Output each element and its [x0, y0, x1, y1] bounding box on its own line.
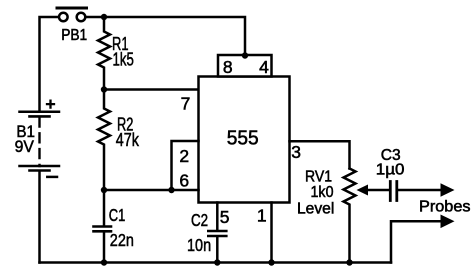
op-amp/IC U1 555 timer body: [199, 77, 290, 203]
capacitor C1 22n: [94, 190, 134, 263]
node: R2 bottom / C1 top junction: [101, 187, 107, 193]
svg-text:Probes: Probes: [419, 199, 471, 216]
pins 8/4 box: [218, 55, 272, 77]
node: RV1 bottom on 0V rail: [346, 259, 352, 265]
svg-text:RV1: RV1: [305, 168, 332, 185]
wire: top rail from PB1 to pins 8/4: [86, 17, 246, 55]
svg-text:PB1: PB1: [61, 27, 87, 44]
pin 1 label: [257, 206, 267, 226]
svg-text:5: 5: [220, 207, 230, 227]
svg-text:7: 7: [181, 94, 191, 114]
svg-text:Level: Level: [297, 200, 334, 217]
wire: bottom 0V rail: [40, 261, 392, 264]
wire: pin 3 to RV1 top: [290, 141, 350, 168]
svg-text:1k0: 1k0: [311, 184, 334, 201]
node: R1 bottom / pin 7 junction: [101, 86, 107, 92]
capacitor C2 10n: [187, 210, 226, 263]
svg-text:6: 6: [179, 171, 189, 191]
resistor R2 47k: [98, 90, 140, 191]
svg-text:1k5: 1k5: [113, 49, 134, 70]
node: junction V+ / R1 top: [101, 14, 107, 20]
svg-text:9V: 9V: [15, 137, 35, 156]
pin 3 label: [291, 142, 301, 162]
pin 5 label: [220, 207, 230, 227]
svg-text:1: 1: [257, 206, 267, 226]
node: C2 bottom on 0V rail: [214, 259, 220, 265]
wire: left rail bottom (battery - to 0V rail): [38, 172, 41, 263]
pin 7 label: [181, 94, 191, 114]
probes label: [419, 199, 471, 216]
node: pin 1 on 0V rail: [268, 259, 274, 265]
wire: pin 1 to 0V rail: [270, 203, 273, 263]
svg-text:555: 555: [227, 128, 259, 150]
node: junction on 8/4 box top: [242, 52, 248, 58]
node: C1 bottom on 0V rail: [101, 259, 107, 265]
wire: pin 5 lead: [216, 203, 219, 231]
node: wire to 2/6 box corner: [168, 187, 174, 193]
pushbutton PB1: [57, 8, 87, 44]
wire: junction to pins 2/6: [104, 189, 172, 192]
svg-text:4: 4: [259, 57, 269, 77]
svg-text:1µ0: 1µ0: [376, 162, 405, 179]
svg-text:47k: 47k: [116, 130, 140, 150]
svg-text:10n: 10n: [187, 235, 211, 255]
svg-text:C1: C1: [109, 205, 126, 225]
resistor R1 1k5: [98, 17, 134, 90]
svg-text:8: 8: [223, 57, 233, 77]
battery B1 9V: [15, 101, 59, 177]
svg-text:C2: C2: [191, 210, 208, 230]
svg-text:3: 3: [291, 142, 301, 162]
svg-text:22n: 22n: [110, 230, 134, 250]
svg-text:2: 2: [179, 146, 189, 166]
wire: C3 to top probe arrow: [398, 183, 455, 197]
wire: 0V rail to bottom probe arrow: [391, 215, 455, 263]
wire: pin 7 to junction: [104, 88, 199, 91]
pins 2/6 box: [172, 141, 199, 191]
capacitor C3 1u0: [376, 147, 405, 200]
potentiometer RV1 1k0 Level: [297, 168, 388, 262]
wire: left rail top (battery + to PB1): [40, 17, 59, 112]
